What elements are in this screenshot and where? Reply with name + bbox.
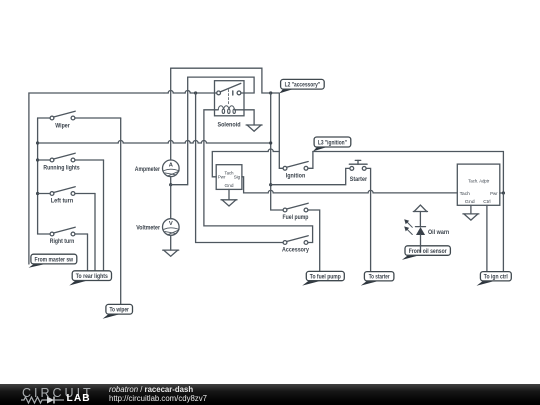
switch SW5 "Ignition" (283, 152, 313, 171)
switch SW6 "Fuel pump" (283, 203, 320, 271)
net flag "To wiper" (103, 304, 133, 318)
net flag "To rear lights" (69, 271, 111, 286)
node dot ampmeter junction (169, 183, 172, 186)
wire tach adapter Pwr pin stub to L3 riser (500, 192, 504, 194)
ground below voltmeter (163, 250, 179, 256)
svg-text:Right turn: Right turn (50, 238, 75, 245)
node dot feed/bus (36, 141, 39, 144)
power flag supply triangle above oil warn LED (413, 205, 427, 212)
wire L3 net over to tach adapter Pwr riser (313, 152, 504, 194)
svg-text:Running lights: Running lights (43, 165, 80, 172)
wire ampmeter junction down to voltmeter (170, 185, 172, 219)
wire switch feed vertical (37, 118, 39, 234)
svg-text:Gnd: Gnd (225, 183, 234, 189)
svg-text:Tach: Tach (225, 170, 234, 176)
switch SW8 "Starter" pushbutton (271, 160, 371, 271)
meter M2 Voltmeter (163, 219, 180, 236)
net flag "To ign ctrl" (477, 272, 512, 286)
net flag L2 "accessory" (279, 79, 324, 93)
switch SW2 "Running lights" (38, 153, 104, 162)
wire master rail from flag up to top feed line (29, 93, 164, 264)
svg-text:Tach: Tach (460, 191, 471, 197)
wire running lights output down to flag (103, 160, 105, 271)
svg-text:To ign ctrl: To ign ctrl (484, 274, 508, 281)
relay K1 solenoid box (215, 81, 245, 116)
svg-text:L2 "accessory": L2 "accessory" (285, 82, 321, 89)
svg-text:Ctrl: Ctrl (483, 199, 490, 205)
svg-text:V: V (169, 221, 173, 227)
net flag L3 "ignition" (313, 137, 351, 151)
svg-text:Sig: Sig (234, 175, 241, 181)
wire tach Pwr pin up to y=151.5 segment over to ignition left riser (hop over L2) (212, 149, 279, 177)
net flag "From master sw" (29, 254, 77, 268)
wire L3 riser continues down to To ign ctrl flag (502, 193, 504, 271)
svg-text:L3 "ignition": L3 "ignition" (318, 139, 347, 146)
net flag "To fuel pump" (302, 271, 344, 285)
node dot feed/running lights (36, 158, 39, 161)
wire solenoid coil right pin to ground (244, 110, 254, 125)
wire y=77 line to x=254.1 down to solenoid contact output (188, 77, 254, 93)
svg-text:To wiper: To wiper (109, 307, 129, 314)
node dot on feed line at x=195.6 (194, 91, 197, 94)
switch SW1 "Wiper" (38, 111, 121, 120)
wire wiper output down to flag (120, 118, 122, 304)
svg-text:Pwr: Pwr (490, 191, 498, 197)
wire tach Gnd pin to ground (228, 189, 230, 199)
svg-text:From oil sensor: From oil sensor (409, 248, 447, 255)
svg-text:Starter: Starter (350, 176, 368, 183)
wire solenoid coil left pin down and over to accessory switch right side (204, 110, 313, 243)
wire y=68 line over to x=261.9 and down to L2 node (171, 68, 280, 93)
svg-text:Voltmeter: Voltmeter (136, 225, 160, 232)
svg-text:Wiper: Wiper (55, 123, 70, 130)
wire tach adapter Gnd pin to ground (470, 205, 472, 214)
node dot feed/left turn (36, 192, 39, 195)
wire voltmeter bottom to ground (170, 236, 172, 251)
svg-text:Oil warn: Oil warn (428, 229, 449, 236)
ground at tach gauge (221, 200, 237, 206)
svg-text:Pwr: Pwr (218, 175, 226, 181)
meter M1 Ampmeter (163, 160, 180, 177)
logo resistor-diode underline and LAB (20, 396, 95, 405)
wire top feed line hop over x=170.7 (164, 91, 185, 94)
net flag "From oil sensor" (402, 246, 451, 260)
component U1 tach gauge box (216, 165, 242, 190)
component U2 tach adapter box (457, 164, 500, 205)
ground at tach adapter (463, 214, 479, 220)
svg-text:Ampmeter: Ampmeter (135, 166, 161, 173)
svg-text:To starter: To starter (369, 274, 390, 281)
svg-text:From master sw: From master sw (35, 257, 74, 264)
svg-text:Accessory: Accessory (282, 246, 309, 253)
footer text url (109, 394, 207, 403)
logo CIRCUIT word (22, 386, 94, 400)
svg-text:Tach. Adptr: Tach. Adptr (468, 178, 489, 184)
wire tach Sig pin right, down, and long run to tach adapter Tach pin with hops (242, 177, 457, 193)
wire L2 net vertical down to fuel pump switch (271, 93, 283, 210)
wire ampmeter bottom to junction (170, 177, 172, 185)
svg-text:Solenoid: Solenoid (217, 122, 240, 129)
wire ampmeter top vertical up to y=68 line (170, 68, 172, 160)
wire right turn output down to flag (87, 234, 89, 271)
ground at solenoid coil (246, 125, 262, 131)
svg-text:Ignition: Ignition (286, 172, 306, 179)
node dot L2/starter feed (269, 183, 272, 186)
wire left turn output down to flag (94, 194, 96, 272)
wire tach adapter Ctrl pin down to To ign ctrl flag (486, 205, 488, 271)
svg-text:Fuel pump: Fuel pump (283, 214, 309, 221)
switch SW4 "Right turn" (38, 227, 88, 236)
net flag "To starter" (361, 272, 394, 286)
wire accessory feed from dot on master line down to accessory left (196, 93, 283, 243)
footer text author/title (109, 385, 193, 394)
node dot L2 at feed (269, 91, 272, 94)
wire top feed line hop over x=187.7 and on to solenoid left pin (185, 91, 217, 94)
diode D1 oil warn LED (404, 212, 425, 246)
wire junction right and riser up to y=77 line (171, 77, 188, 185)
svg-text:A: A (169, 163, 174, 169)
svg-text:To fuel pump: To fuel pump (310, 274, 341, 281)
svg-text:To rear lights: To rear lights (76, 273, 108, 280)
node dot Pwr/L3 riser (502, 191, 505, 194)
wire ignition feed from L2 flag stem down to ignition left (279, 93, 283, 168)
svg-text:Left turn: Left turn (51, 198, 73, 205)
switch SW3 "Left turn" (38, 187, 95, 196)
footer CircuitLab branding bar (0, 384, 540, 405)
svg-text:Gnd: Gnd (465, 199, 475, 205)
wire main bus y=143 with hops (38, 141, 271, 144)
switch SW7 "Accessory" (283, 236, 308, 245)
node dot L2/bus (269, 141, 272, 144)
